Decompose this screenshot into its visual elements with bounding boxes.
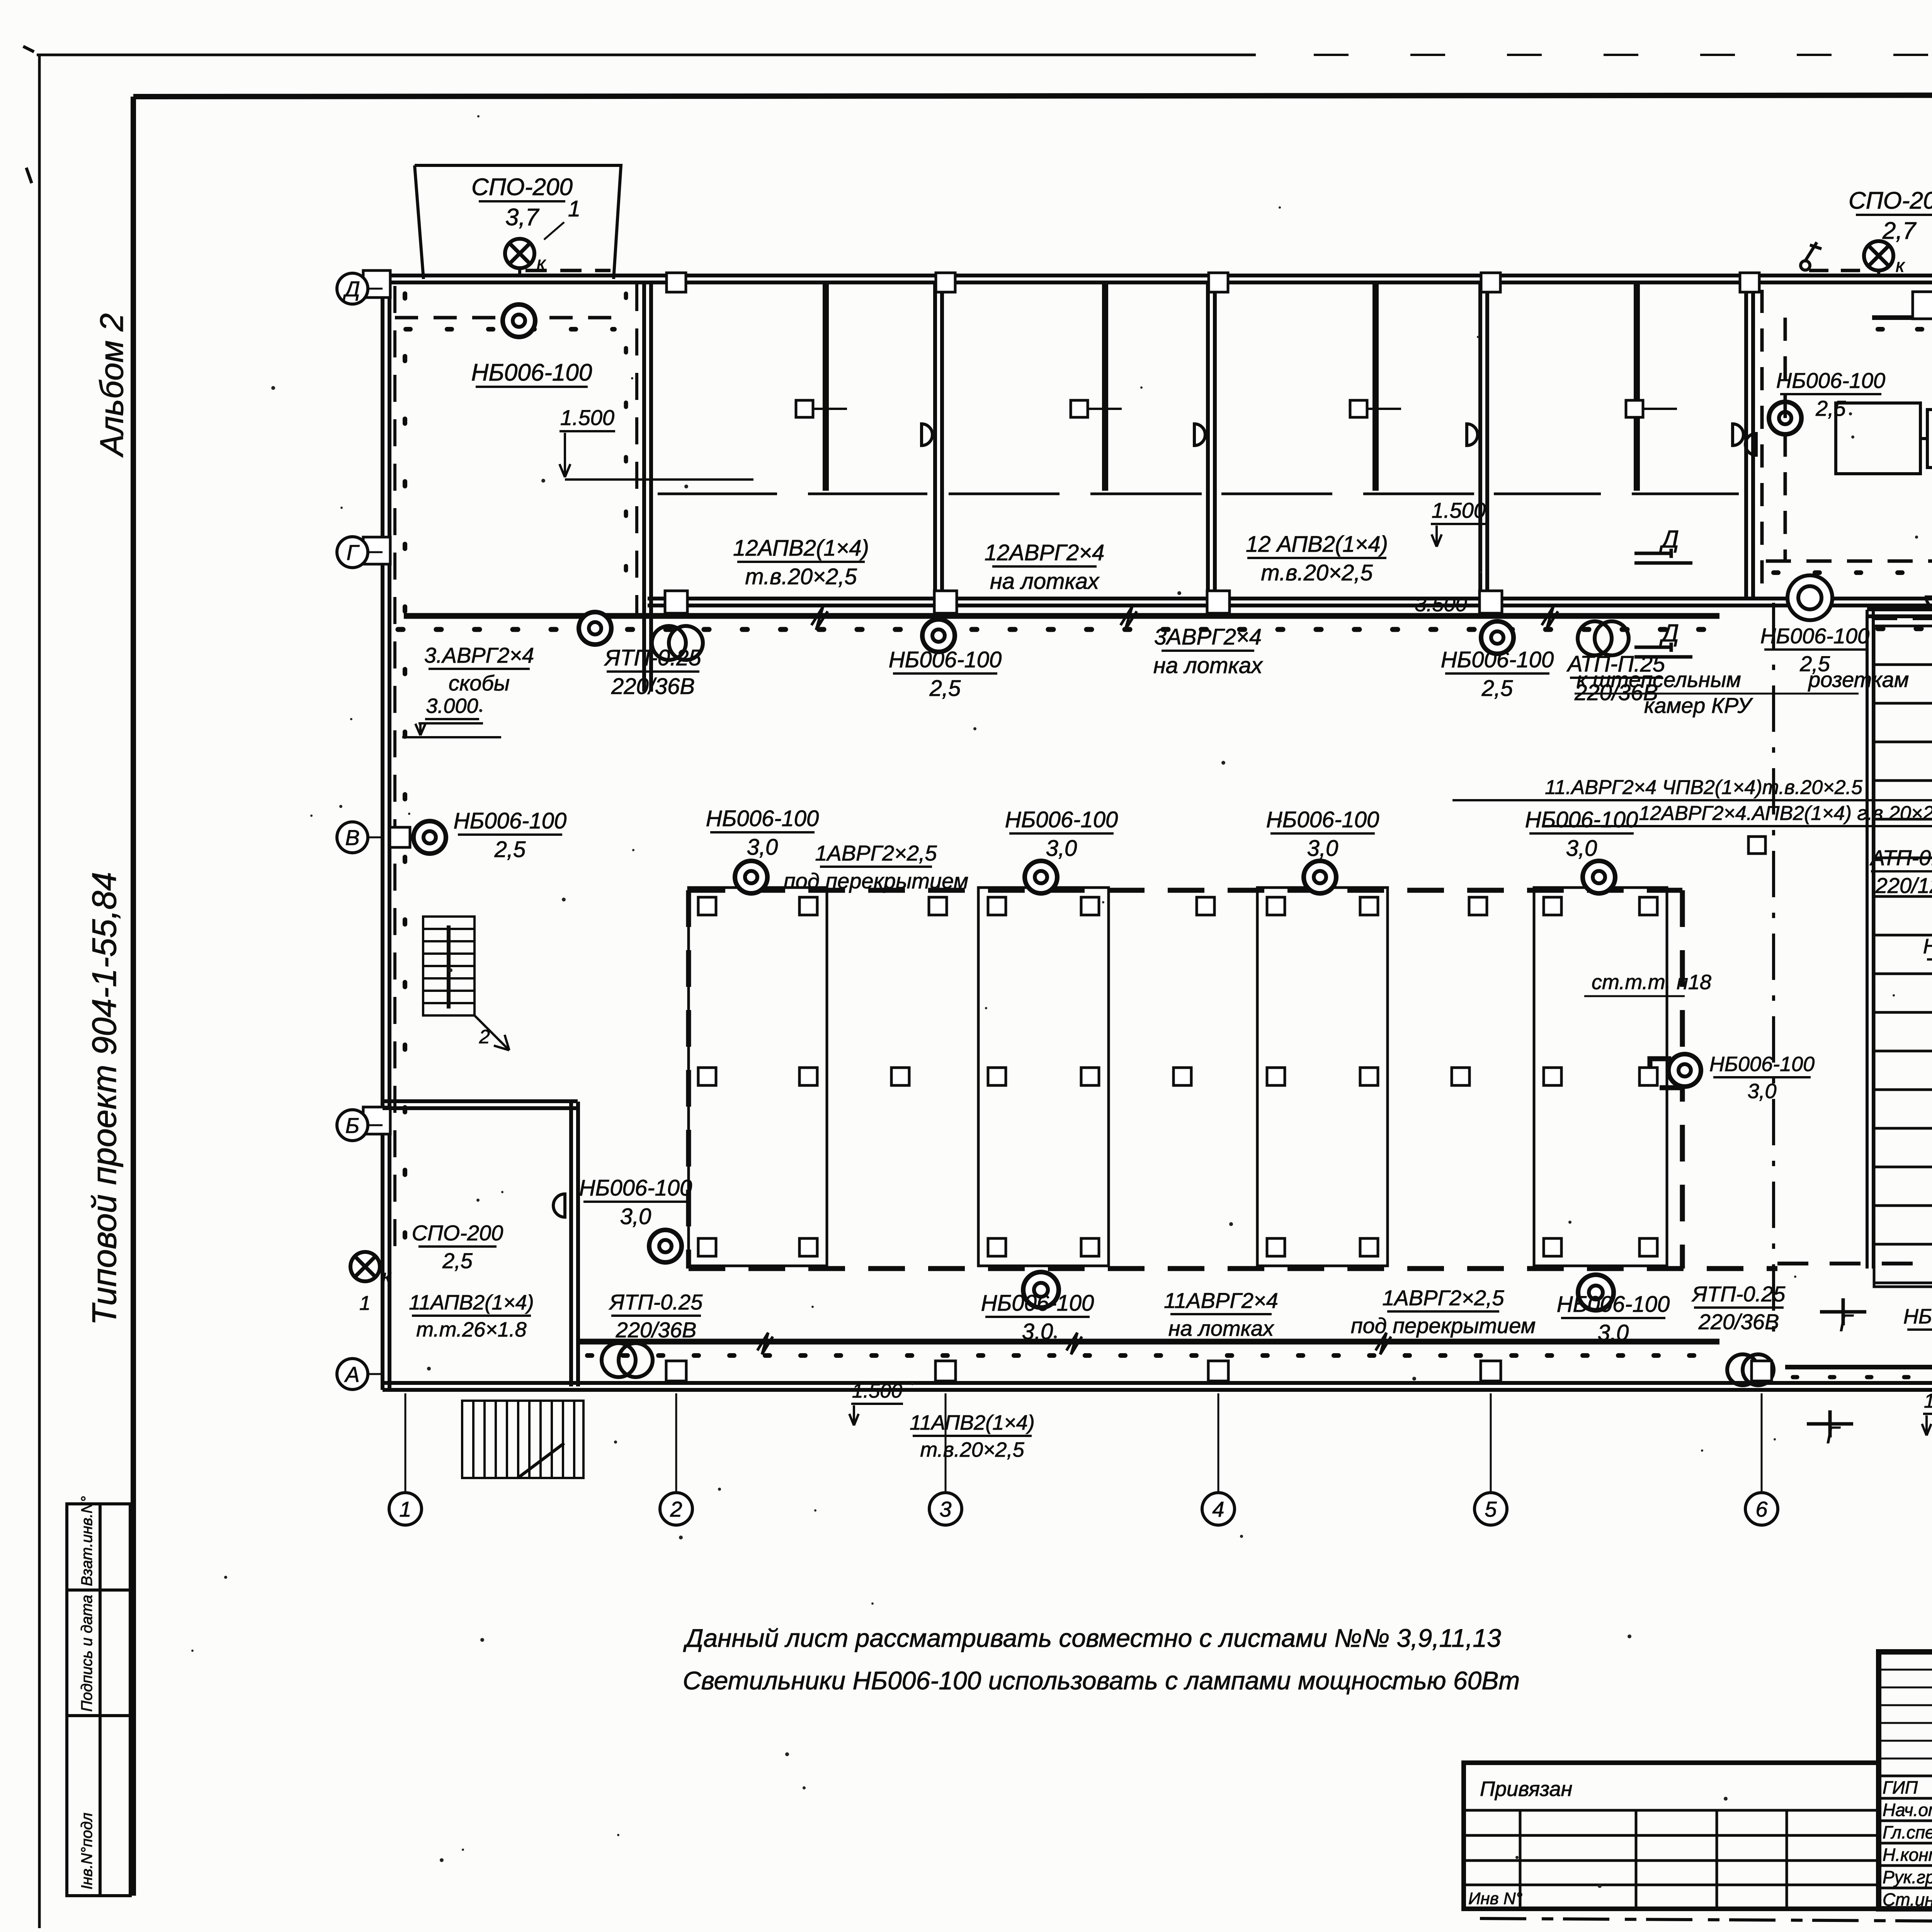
svg-text:ЯТП-0.25: ЯТП-0.25: [1691, 1282, 1786, 1306]
frame top: [133, 95, 1932, 97]
svg-text:СПО-200: СПО-200: [471, 174, 573, 201]
section arrow: [1634, 643, 1692, 657]
svg-text:ЯТП-0.25: ЯТП-0.25: [609, 1290, 703, 1314]
svg-text:2,5: 2,5: [442, 1248, 473, 1273]
machine body: [1836, 403, 1920, 474]
thin partition: [1637, 282, 1640, 491]
svg-text:Нач.отд: Нач.отд: [1883, 1800, 1932, 1820]
svg-text:СПО-200: СПО-200: [412, 1221, 503, 1245]
box at wall: [390, 827, 410, 847]
cable dots: [1793, 1375, 1932, 1379]
bench line: [1363, 493, 1474, 495]
bench line: [808, 493, 927, 495]
label НБ006-100: [1923, 935, 1932, 985]
dashed feed: [1809, 269, 1867, 272]
svg-text:СПО-200: СПО-200: [1849, 187, 1932, 214]
svg-text:Д: Д: [342, 277, 360, 301]
pilaster: [363, 537, 390, 564]
grid leader В: [367, 837, 383, 838]
hall dashed left: [686, 890, 691, 1269]
svg-text:Гл.спец: Гл.спец: [1883, 1822, 1932, 1842]
column: [1360, 897, 1378, 915]
label НБ006-100 3.0: [1525, 807, 1638, 861]
column on bottom wall: [1752, 1361, 1772, 1381]
grid leader 5: [1490, 1393, 1492, 1495]
label НБ006-100: [889, 647, 1002, 701]
svg-text:1.500: 1.500: [852, 1380, 902, 1402]
level mark 3.000: [402, 723, 501, 737]
svg-text:4: 4: [1212, 1497, 1224, 1521]
cable run on trays: [404, 613, 1719, 619]
transformer ЯТП: [1727, 1354, 1774, 1385]
outside stair: [462, 1401, 583, 1478]
svg-text:т.в.20×2,5: т.в.20×2,5: [1261, 560, 1373, 585]
svg-text:НБ006-100: НБ006-100: [454, 808, 567, 833]
grid marker 5: [1475, 1493, 1507, 1525]
svg-text:Iнв.N°подл: Iнв.N°подл: [78, 1813, 95, 1889]
corridor wall (top band bottom): [648, 599, 1932, 605]
room partition wall: [1208, 282, 1215, 599]
bench line: [1221, 493, 1332, 495]
svg-text:АТП-0.25: АТП-0.25: [1869, 845, 1932, 870]
svg-text:НБ006-100: НБ006-100: [1266, 807, 1379, 832]
label НБ006-100: [1441, 647, 1554, 701]
svg-text:11АПВ2(1×4): 11АПВ2(1×4): [910, 1411, 1035, 1434]
column: [1639, 1238, 1657, 1256]
label 11АВРГ2х4: [1452, 776, 1932, 800]
svg-text:2,5: 2,5: [1481, 676, 1513, 701]
grid leader 2: [675, 1393, 677, 1495]
break mark: [811, 607, 828, 630]
left stamp divider: [67, 1588, 130, 1592]
room partition wall long: [644, 282, 651, 692]
cable dots: [1774, 570, 1932, 575]
column: [1360, 1068, 1378, 1085]
left stamp divider: [67, 1714, 130, 1717]
label НБ006-100 розеткам: [1760, 624, 1869, 676]
hall dashed bottom: [689, 1266, 1777, 1271]
label 3АВРГ2х4: [1153, 624, 1263, 678]
svg-text:Данный лист рассматривать с: Данный лист рассматривать совместно с ли…: [683, 1624, 1501, 1652]
room wall: [383, 1101, 578, 1108]
lamp НБ006-100: [922, 619, 955, 652]
machine room bottom cable: [1766, 560, 1932, 563]
left dashed cable run: [393, 286, 396, 1264]
column: [1197, 897, 1214, 915]
КРУ top wall: [1867, 609, 1932, 616]
wall lamp sconce: [1194, 424, 1205, 446]
door swing: [553, 1194, 565, 1217]
cable dots left: [403, 294, 407, 1260]
column on corridor wall: [934, 591, 957, 613]
left stamp boxes divider: [99, 1504, 102, 1896]
svg-text:НБ006-100: НБ006-100: [981, 1291, 1094, 1316]
lamp НБ006-100: [413, 821, 446, 854]
svg-text:1.500: 1.500: [1432, 498, 1486, 522]
grid leader Д: [367, 288, 383, 290]
label 12АВРГ2х4: [985, 540, 1105, 594]
column: [1267, 897, 1285, 915]
fixture box: [1071, 400, 1088, 417]
room partition wall: [935, 282, 942, 599]
thin partition: [823, 282, 826, 491]
lamp СПО-200 top-left: [505, 239, 546, 274]
arrow: [1432, 526, 1442, 547]
label 12АПВ2: [733, 536, 869, 589]
svg-text:2: 2: [670, 1497, 682, 1521]
label ЯТП-0.25: [609, 1290, 703, 1342]
column: [1544, 1068, 1561, 1085]
lamp НБ006-100: [503, 304, 535, 337]
svg-text:НБ006-100: НБ006-100: [1709, 1053, 1815, 1076]
underline: [1575, 693, 1859, 695]
thin partition: [1102, 282, 1105, 491]
lamp НБ006-100: [1769, 402, 1801, 434]
svg-text:НБ006-100: НБ006-100: [706, 806, 819, 831]
column: [1081, 897, 1099, 915]
svg-text:2,5: 2,5: [1815, 396, 1846, 420]
svg-text:на лотках: на лотках: [1168, 1316, 1274, 1340]
label 1.500: [1431, 498, 1486, 524]
svg-text:2,5: 2,5: [929, 676, 961, 701]
svg-text:2,5: 2,5: [494, 837, 526, 862]
title block main box: [1879, 1652, 1932, 1909]
label 11АВРГ2х4: [1164, 1288, 1278, 1340]
label ЯТП-0.25: [1691, 1282, 1786, 1334]
label ЯТП-0.25: [604, 645, 701, 699]
svg-text:Подпись и дата: Подпись и дата: [78, 1595, 95, 1712]
svg-text:Ст.инж.: Ст.инж.: [1883, 1889, 1932, 1910]
svg-text:НБ006-100: НБ006-100: [1557, 1292, 1670, 1317]
svg-text:Н.контр.: Н.контр.: [1883, 1845, 1932, 1865]
vent shaft outline: [415, 165, 621, 279]
section line Г-Г: [1772, 603, 1775, 1333]
column: [799, 1068, 817, 1085]
label НБ006-100 left: [454, 808, 567, 862]
lamp СПО-200 left: [350, 1252, 392, 1287]
room partition wall: [1746, 282, 1753, 599]
column: [1469, 897, 1487, 915]
column: [799, 1238, 817, 1256]
grid marker 1: [389, 1493, 422, 1525]
svg-text:3,0: 3,0: [747, 835, 778, 860]
grid marker 6: [1745, 1493, 1778, 1525]
bench line: [949, 493, 1060, 495]
svg-text:скобы: скобы: [449, 671, 510, 695]
label 1.500: [560, 405, 615, 431]
svg-text:12АВРГ2×4.АПВ2(1×4) г.в 20×2.: 12АВРГ2×4.АПВ2(1×4) г.в 20×2.5: [1639, 802, 1932, 825]
column on top wall: [1740, 273, 1759, 292]
label 1.500: [851, 1380, 903, 1404]
column on bottom wall: [1208, 1361, 1228, 1381]
grid leader 4: [1218, 1393, 1219, 1495]
wall lamp sconce: [922, 424, 932, 446]
label АТП-0.25 220/12В: [1869, 845, 1932, 898]
machine body 2: [1927, 410, 1932, 468]
label 1.500: [1923, 1390, 1932, 1414]
extension table: [1464, 1810, 1879, 1909]
lamp НБ006-100: [649, 1230, 682, 1262]
dashed feed: [526, 269, 611, 272]
svg-text:розеткам: розеткам: [1808, 667, 1909, 692]
cable dots: [624, 294, 628, 607]
svg-text:3АВРГ2×4: 3АВРГ2×4: [1154, 624, 1262, 650]
column: [1081, 1238, 1099, 1256]
column: [988, 1238, 1006, 1256]
svg-text:3.000: 3.000: [426, 694, 478, 718]
svg-text:3.500: 3.500: [1415, 593, 1467, 616]
lamp НБ006-100: [735, 861, 767, 893]
wall lamp sconce: [1467, 424, 1478, 446]
label НБ006-100 3.0: [706, 806, 819, 860]
arrow down: [560, 433, 570, 477]
grid leader 1: [405, 1393, 406, 1495]
svg-text:1: 1: [359, 1292, 371, 1315]
level line 1.500: [565, 478, 753, 481]
transformer ЯТП: [1578, 621, 1629, 655]
svg-text:3,0: 3,0: [1566, 836, 1597, 861]
thin partition: [1105, 282, 1108, 491]
svg-text:т.т.26×1.8: т.т.26×1.8: [416, 1318, 526, 1341]
tray box: [1913, 292, 1932, 319]
column on bottom wall: [1481, 1361, 1501, 1381]
label НБ006-100 top-left: [471, 359, 592, 387]
svg-text:220/36В: 220/36В: [616, 1318, 697, 1342]
column on corridor wall: [1480, 591, 1502, 613]
break mark: [757, 1333, 773, 1354]
lamp НБ006-100: [1025, 861, 1057, 893]
label СПО-200 3,7: [471, 174, 573, 231]
svg-text:НБ006-100: НБ006-100: [579, 1175, 692, 1201]
thin partition: [1372, 282, 1376, 491]
svg-text:к: к: [1896, 256, 1905, 276]
thin partition: [826, 282, 829, 491]
cable dots: [1878, 626, 1932, 631]
КРУ left wall: [1866, 610, 1869, 1269]
frame left: [131, 97, 136, 1896]
scan smear: [1480, 1918, 1932, 1921]
svg-text:3.АВРГ2×4: 3.АВРГ2×4: [424, 643, 534, 667]
svg-text:Д: Д: [1659, 619, 1679, 647]
svg-text:НБ006-100: НБ006-100: [1760, 624, 1869, 648]
svg-text:Д: Д: [1659, 525, 1679, 553]
leader: [544, 222, 564, 240]
bench line: [658, 493, 777, 495]
wall lamp sconce: [1733, 424, 1743, 446]
svg-text:2,7: 2,7: [1882, 218, 1917, 244]
svg-text:Альбом 2: Альбом 2: [94, 313, 130, 458]
transformer ЯТП: [602, 1343, 653, 1377]
label НБ006-100: [579, 1175, 692, 1229]
machine link: [1920, 437, 1927, 440]
scan streak: [23, 46, 34, 183]
label 3.500: [1414, 593, 1468, 617]
stair left: [423, 917, 509, 1050]
cable dots: [587, 1353, 1716, 1358]
grid marker 4: [1202, 1493, 1235, 1525]
title block extension: [1464, 1763, 1879, 1909]
svg-text:А: А: [344, 1362, 359, 1386]
fixture tie: [1367, 408, 1401, 410]
lamp drop: [1877, 270, 1880, 276]
sheet edge top thin: [37, 54, 1256, 56]
КРУ left wall inner: [1872, 610, 1875, 1269]
column: [698, 897, 716, 915]
break mark: [1066, 1333, 1082, 1354]
break mark: [1542, 607, 1558, 630]
bottom cable run: [580, 1339, 1719, 1345]
svg-text:11АВРГ2×4: 11АВРГ2×4: [1164, 1288, 1278, 1313]
grid marker 2: [660, 1493, 692, 1525]
svg-text:под перекрытием: под перекрытием: [1351, 1313, 1536, 1338]
bench line: [1090, 493, 1202, 495]
svg-text:3,0: 3,0: [1307, 836, 1338, 861]
fixture box: [796, 400, 813, 417]
grid marker А: [337, 1359, 368, 1389]
break mark: [1376, 1333, 1391, 1354]
svg-text:ГИП: ГИП: [1883, 1777, 1918, 1798]
svg-text:Привязан: Привязан: [1480, 1777, 1572, 1801]
fixture box: [1626, 400, 1643, 417]
column: [1360, 1238, 1378, 1256]
svg-text:1АВРГ2×2,5: 1АВРГ2×2,5: [815, 841, 937, 865]
switch symbol: [1801, 242, 1821, 270]
room partition wall: [1480, 282, 1487, 599]
svg-text:11.АВРГ2×4 ЧПВ2(1×4)т.в.20×2.: 11.АВРГ2×4 ЧПВ2(1×4)т.в.20×2.5: [1545, 776, 1863, 799]
lamp НБ006-100: [1481, 621, 1514, 654]
column: [698, 1238, 716, 1256]
label НБ006-100 3.0: [1005, 807, 1118, 861]
svg-text:НБ006-100: НБ006-100: [1525, 807, 1638, 832]
label НБ006-100 right mid: [1709, 1053, 1815, 1103]
exterior wall top: [383, 276, 1932, 282]
column: [1267, 1238, 1285, 1256]
box: [1748, 837, 1765, 854]
thin partition: [1376, 282, 1379, 491]
column: [1267, 1068, 1285, 1085]
svg-text:НБ006-100: НБ006-100: [1005, 807, 1118, 832]
svg-text:Взam.инв.N°: Взam.инв.N°: [78, 1496, 95, 1586]
svg-text:2: 2: [479, 1026, 490, 1048]
label НБ006-100 3.0: [1266, 807, 1379, 861]
column: [799, 897, 817, 915]
exterior wall bottom: [383, 1383, 1932, 1390]
lamp НБ006-100: [1668, 1054, 1701, 1087]
column on corridor wall: [1207, 591, 1230, 613]
bottom cable right part: [1785, 1365, 1932, 1369]
label 12АВРГ2х4: [1544, 802, 1932, 826]
section arrow: [1807, 1410, 1853, 1437]
dashed cable top-left room: [395, 316, 618, 320]
svg-text:3: 3: [939, 1497, 951, 1521]
door swing: [1745, 434, 1756, 455]
label НБ006-100: [981, 1291, 1094, 1344]
machine foundation: [689, 888, 827, 1266]
room dashed cable: [1762, 290, 1932, 595]
svg-text:т.в.20×2,5: т.в.20×2,5: [920, 1438, 1024, 1461]
svg-text:1.500: 1.500: [560, 405, 614, 430]
svg-text:12 АПВ2(1×4): 12 АПВ2(1×4): [1246, 532, 1388, 557]
label НБ006-100: [1903, 1305, 1932, 1355]
svg-text:3,0: 3,0: [620, 1204, 651, 1229]
svg-text:3,7: 3,7: [505, 204, 540, 231]
transformer ЯТП: [652, 626, 703, 660]
pilaster: [363, 270, 390, 298]
grid marker Б: [337, 1110, 368, 1141]
lamp drop: [518, 268, 521, 276]
svg-text:1.500: 1.500: [1924, 1390, 1932, 1412]
column: [1173, 1068, 1191, 1085]
grid leader Б: [367, 1124, 383, 1126]
label СПО-200 2,7: [1849, 187, 1932, 244]
hall dashed right jog: [1650, 890, 1682, 1269]
door swing: [1926, 597, 1932, 609]
hall dashed top: [689, 888, 1682, 893]
arrow: [1922, 1415, 1931, 1435]
label СПО-200 2,5: [412, 1221, 503, 1273]
svg-text:12АВРГ2×4: 12АВРГ2×4: [985, 540, 1105, 565]
fixture tie: [1088, 408, 1122, 410]
column: [929, 897, 947, 915]
label 1АВРГ2х2,5: [784, 841, 968, 893]
machine foundation: [1534, 888, 1667, 1266]
lamp НБ006-100: [1304, 861, 1336, 893]
left stamp boxes outer: [67, 1504, 130, 1896]
svg-text:на лотках: на лотках: [990, 569, 1100, 594]
arrow: [849, 1405, 859, 1425]
thin partition: [1634, 282, 1637, 491]
label НБ006-100: [1557, 1292, 1670, 1345]
svg-text:3,0: 3,0: [1046, 836, 1077, 861]
break mark: [1121, 607, 1137, 630]
title block left thin rows: [1879, 1670, 1932, 1759]
svg-text:Инв N°: Инв N°: [1468, 1889, 1522, 1908]
svg-text:1: 1: [399, 1497, 411, 1521]
svg-text:5: 5: [1485, 1497, 1497, 1521]
svg-text:В: В: [345, 825, 359, 850]
label 11АПВ2 т.т.26: [409, 1291, 534, 1341]
grid leader Г: [367, 551, 383, 553]
grid leader А: [367, 1373, 383, 1375]
fixture box: [1350, 400, 1367, 417]
grid marker Г: [337, 537, 368, 568]
fixture tie: [813, 408, 847, 410]
column: [988, 1068, 1006, 1085]
cable dots: [406, 327, 614, 332]
svg-text:Типовой проект 904-1-55,84: Типовой проект 904-1-55,84: [85, 872, 123, 1325]
svg-text:Г: Г: [347, 540, 360, 565]
svg-text:1АВРГ2×2,5: 1АВРГ2×2,5: [1382, 1286, 1504, 1310]
svg-text:220/36В: 220/36В: [1698, 1310, 1779, 1334]
column on bottom wall: [666, 1361, 686, 1381]
svg-text:НБ006-100: НБ006-100: [1923, 935, 1932, 958]
column on top wall: [1481, 273, 1500, 292]
svg-text:Светильники НБ006-100 исполь: Светильники НБ006-100 использовать с лам…: [683, 1666, 1520, 1695]
label 12АПВ2: [1246, 532, 1388, 585]
grid leader 6: [1761, 1393, 1763, 1495]
column: [1452, 1068, 1469, 1085]
lamp НБ006-100: [1578, 1275, 1614, 1310]
machine foundation: [1257, 888, 1388, 1266]
column: [988, 897, 1006, 915]
column: [1639, 1068, 1657, 1085]
label 3АВРГ2х4 скобы: [424, 643, 534, 695]
machine foundation: [978, 888, 1109, 1266]
dashed cable by wall 2: [635, 284, 638, 614]
svg-text:220/36В: 220/36В: [611, 674, 695, 699]
grid marker Д: [337, 273, 368, 304]
lamp НБ006-100: [579, 612, 611, 645]
